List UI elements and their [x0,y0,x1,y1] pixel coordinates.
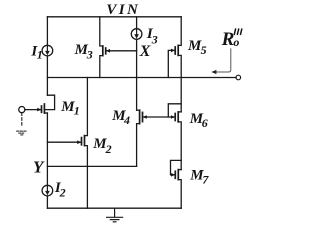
output terminal circle [236,75,241,80]
transistor M3 (gate right) [100,17,137,78]
transistor M5 (gate left) [168,17,181,112]
wire M2 gate line [47,141,81,143]
current source I2 [42,185,53,196]
wire node Y line [47,165,136,167]
wire left column above I1 [46,17,48,46]
svg-text:4: 4 [123,113,130,127]
svg-text:1: 1 [37,48,43,62]
transistor M4 (gate right) [137,110,147,166]
transistor M2 (gate left) [77,78,87,209]
svg-text:5: 5 [201,43,207,57]
transistor M6 (diode-connected, gate left) [168,104,181,170]
wire node X column down to M4 [136,39,138,110]
svg-text:Y: Y [33,158,45,177]
svg-text:VIN: VIN [106,2,140,18]
svg-text:3: 3 [151,33,158,47]
wire shared gate line M4-M6 [143,116,176,118]
current source I3 [131,17,142,40]
svg-text:X: X [139,43,151,60]
wire left column I1 to M1 drain [46,56,48,95]
wire left column M1 source down [46,113,48,185]
svg-text:2: 2 [105,142,112,156]
svg-text:3: 3 [86,48,93,62]
input terminal circle [19,107,25,113]
dashed line to AC ground [21,113,23,127]
svg-text:6: 6 [202,116,208,130]
transistor M7 (diode-connected, gate left) [171,160,182,208]
svg-text:7: 7 [202,172,209,186]
svg-text:2: 2 [59,186,66,200]
wire top rail VIN [47,16,181,18]
wire output node line (Ro''' node) [47,77,236,79]
wire left column below I2 [46,196,48,208]
AC ground symbol [17,131,27,135]
Ro''' pointer arrow [214,48,230,72]
svg-text:R: R [221,29,235,50]
ground symbol [107,208,123,222]
current source I1 [42,45,53,56]
transistor M1 (diode-connected, gate left) [25,95,55,113]
svg-text:o: o [233,35,239,49]
wire bottom rail [47,207,181,209]
svg-text:1: 1 [74,103,80,117]
